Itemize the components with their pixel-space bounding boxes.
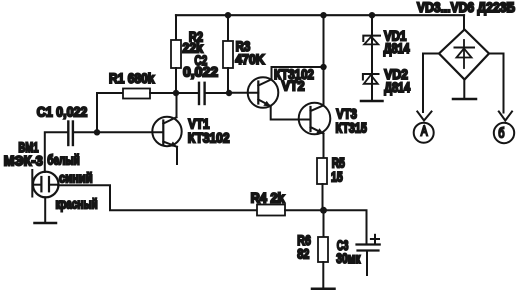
label R2 value 22k <box>182 40 203 56</box>
label VD2 type D814 <box>384 80 410 96</box>
label VT3 type KT315 <box>336 120 367 136</box>
wire R5 bottom <box>322 184 324 210</box>
label wire white <box>47 152 80 168</box>
diode VD1 zener <box>363 36 380 45</box>
wire bridge right output <box>489 54 504 113</box>
node rail collector-branch junction <box>320 12 326 18</box>
wire VT2 base lead <box>229 92 258 94</box>
svg-text:82: 82 <box>297 246 309 262</box>
ground mic <box>35 222 57 225</box>
capacitor C2 <box>199 83 205 104</box>
wire VT3 collector up <box>323 67 325 105</box>
label VT1 <box>188 115 209 131</box>
svg-text:белый: белый <box>47 152 80 168</box>
label R1 680k <box>109 70 155 86</box>
arrow to terminal B <box>499 112 512 121</box>
wire mic to C1 <box>45 132 67 172</box>
node collector branch <box>320 64 326 70</box>
label VT2 type KT3102 <box>274 66 314 82</box>
node rail-R3 junction <box>225 12 231 18</box>
wire C1 junction up to R1 <box>97 93 123 132</box>
svg-text:КТ3102: КТ3102 <box>188 130 230 146</box>
capacitor C3 polarity plus <box>371 235 379 243</box>
svg-text:R1 680k: R1 680k <box>109 70 155 86</box>
wire VT3 emitter to R5 <box>323 134 325 158</box>
svg-text:VT2: VT2 <box>282 78 305 94</box>
wire R6 top <box>323 210 325 237</box>
svg-text:Д814: Д814 <box>384 41 410 57</box>
node R1/R2/VT1 collector <box>173 90 179 96</box>
wire bridge bottom to ground <box>463 80 465 99</box>
wire rail to bridge top <box>463 15 465 29</box>
wire C1 to junction and VT1 base <box>74 131 163 133</box>
svg-text:C1 0,022: C1 0,022 <box>37 104 88 120</box>
transistor VT3 <box>299 103 331 135</box>
label R6 value 82 <box>297 246 309 262</box>
label R5 <box>332 155 345 171</box>
resistor R3 <box>223 41 233 68</box>
wire C2 to R3 node <box>205 92 229 94</box>
label VD2 <box>384 66 408 82</box>
wire mic bottom to ground <box>44 197 46 223</box>
svg-text:VD3...VD6 Д223Б: VD3...VD6 Д223Б <box>417 0 515 15</box>
wire node to C3 <box>324 210 367 244</box>
wire branch node down from rail <box>323 15 325 67</box>
label R3 <box>236 38 251 54</box>
wire VT1 collector up <box>176 93 178 117</box>
wire VT2 collector to branch node <box>272 67 324 79</box>
wire R6 bottom to ground <box>322 262 324 289</box>
resistor R6 <box>318 237 328 262</box>
resistor R5 <box>317 158 327 184</box>
node rail-VD1 junction <box>369 12 375 18</box>
svg-text:A: A <box>421 123 429 139</box>
svg-text:красный: красный <box>56 196 98 212</box>
transistor VT1 <box>152 117 181 147</box>
svg-text:синий: синий <box>59 170 93 185</box>
label C1 0,022 <box>37 104 88 120</box>
arrow to terminal A <box>417 112 431 121</box>
label wire blue <box>59 170 93 185</box>
wire VD1 to VD2 <box>371 37 373 74</box>
label BM1 <box>18 139 38 155</box>
svg-text:470K: 470K <box>235 51 265 67</box>
terminal A <box>414 123 434 143</box>
wire C3 bottom lead <box>366 251 368 275</box>
capacitor C3 <box>357 245 380 251</box>
node C1/R1/VT1 base <box>94 129 100 135</box>
wire R3 top lead <box>227 15 229 41</box>
wire VD1 top lead <box>371 15 373 36</box>
microphone BM1 <box>32 170 58 197</box>
label C3 value 30mk <box>336 250 361 266</box>
wire top supply rail <box>176 14 464 16</box>
svg-text:0,022: 0,022 <box>183 63 218 79</box>
label VT3 <box>336 105 357 121</box>
wire R3 bottom lead <box>227 68 229 93</box>
wire VT1 emitter down <box>176 147 178 164</box>
svg-text:15: 15 <box>331 169 343 185</box>
svg-text:R4 2k: R4 2k <box>251 190 286 206</box>
wire VD2 bottom to ground <box>371 75 373 101</box>
wire R2 bottom lead <box>175 68 177 93</box>
wire node to C2 <box>176 92 198 94</box>
resistor R1 <box>123 89 150 99</box>
terminal B <box>494 123 514 143</box>
svg-text:30мк: 30мк <box>336 250 361 266</box>
transistor VT2 <box>248 77 279 108</box>
label C2 <box>194 52 207 68</box>
label wire red <box>56 196 98 212</box>
label VT1 type KT3102 <box>188 130 230 146</box>
diode VD2 zener <box>363 74 379 84</box>
svg-text:МЭК-3: МЭК-3 <box>4 153 43 169</box>
label VD1 type D814 <box>384 41 410 57</box>
node R4/R5/R6/C3 <box>320 207 327 214</box>
ground R6 <box>312 288 335 291</box>
label R2 <box>189 29 203 45</box>
resistor R2 <box>171 40 181 68</box>
label C3 <box>337 237 349 254</box>
label BM1 type MEK-3 <box>4 153 43 169</box>
resistor R4 <box>257 205 285 216</box>
wire R4 right lead <box>285 209 324 211</box>
label VD1 <box>384 27 406 43</box>
label R6 <box>297 232 311 248</box>
bridge rectifier VD3-VD6 <box>439 30 489 80</box>
ground VD2 <box>361 100 383 103</box>
node R3/C2/VT2 base <box>226 90 232 96</box>
label C2 value 0,022 <box>183 63 218 79</box>
label VD3-VD6 D223B <box>417 0 515 15</box>
wire mic output to R4 <box>58 185 257 210</box>
svg-text:Д814: Д814 <box>384 80 410 96</box>
capacitor C1 <box>68 122 73 146</box>
wire R1 right lead <box>150 92 176 94</box>
label R5 value 15 <box>331 169 343 185</box>
label R3 value 470K <box>235 51 265 67</box>
svg-text:КТ315: КТ315 <box>336 120 367 136</box>
wire bridge left output <box>423 54 439 113</box>
svg-text:б: б <box>498 125 504 141</box>
wire VT2 emitter to VT3 base <box>271 106 311 119</box>
label R4 2k <box>251 190 286 206</box>
wire R2 top lead <box>175 15 177 40</box>
label VT2 <box>282 78 305 94</box>
ground bridge <box>453 98 476 101</box>
